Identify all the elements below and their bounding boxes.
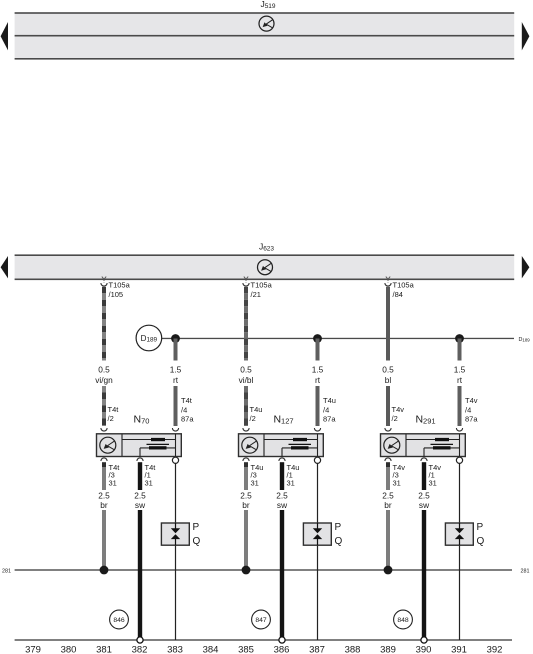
svg-text:31: 31: [393, 478, 401, 487]
svg-text:/4: /4: [465, 405, 471, 414]
svg-text:br: br: [100, 500, 108, 510]
svg-text:388: 388: [345, 645, 361, 654]
svg-text:/4: /4: [323, 405, 329, 414]
svg-text:rt: rt: [173, 375, 179, 385]
svg-text:/84: /84: [393, 290, 403, 299]
svg-text:0.5: 0.5: [382, 365, 394, 375]
svg-text:31: 31: [429, 478, 437, 487]
svg-text:391: 391: [451, 645, 467, 654]
svg-text:/105: /105: [109, 290, 124, 299]
svg-text:vi/gn: vi/gn: [95, 375, 113, 385]
svg-text:D189: D189: [519, 337, 531, 343]
svg-text:379: 379: [25, 645, 41, 654]
svg-text:T105a: T105a: [251, 281, 273, 290]
svg-text:392: 392: [487, 645, 503, 654]
svg-text:J623: J623: [259, 241, 274, 252]
svg-text:87a: 87a: [323, 415, 336, 424]
svg-text:383: 383: [167, 645, 183, 654]
svg-text:281: 281: [521, 568, 530, 574]
svg-text:87a: 87a: [465, 415, 478, 424]
svg-text:848: 848: [397, 617, 409, 624]
svg-text:31: 31: [145, 478, 153, 487]
svg-text:381: 381: [96, 645, 112, 654]
svg-text:P: P: [477, 522, 484, 533]
svg-text:T4u: T4u: [250, 405, 263, 414]
svg-text:0.5: 0.5: [240, 365, 252, 375]
svg-text:N70: N70: [134, 414, 150, 426]
svg-text:/4: /4: [181, 405, 187, 414]
svg-text:sw: sw: [277, 500, 288, 510]
svg-text:rt: rt: [315, 375, 321, 385]
svg-text:P: P: [193, 522, 200, 533]
svg-text:387: 387: [309, 645, 325, 654]
svg-text:Q: Q: [193, 536, 201, 547]
svg-text:380: 380: [61, 645, 77, 654]
svg-text:385: 385: [238, 645, 254, 654]
svg-text:1.5: 1.5: [312, 365, 324, 375]
svg-text:Q: Q: [477, 536, 485, 547]
svg-text:31: 31: [109, 478, 117, 487]
svg-text:0.5: 0.5: [98, 365, 110, 375]
svg-text:T4t: T4t: [108, 405, 120, 414]
svg-text:386: 386: [274, 645, 290, 654]
svg-text:31: 31: [251, 478, 259, 487]
svg-text:31: 31: [287, 478, 295, 487]
svg-text:/21: /21: [251, 290, 261, 299]
svg-text:bl: bl: [385, 375, 392, 385]
svg-text:/2: /2: [250, 414, 256, 423]
svg-text:T4v: T4v: [392, 405, 405, 414]
svg-text:T4v: T4v: [465, 396, 478, 405]
svg-text:N127: N127: [273, 414, 293, 426]
svg-text:382: 382: [132, 645, 148, 654]
svg-text:Q: Q: [335, 536, 343, 547]
svg-text:/2: /2: [392, 414, 398, 423]
svg-text:br: br: [384, 500, 392, 510]
svg-text:N291: N291: [415, 414, 435, 426]
svg-text:281: 281: [2, 568, 11, 574]
svg-text:sw: sw: [419, 500, 430, 510]
svg-text:390: 390: [416, 645, 432, 654]
svg-text:rt: rt: [457, 375, 463, 385]
svg-text:T105a: T105a: [393, 281, 415, 290]
svg-text:1.5: 1.5: [454, 365, 466, 375]
svg-text:384: 384: [203, 645, 219, 654]
svg-text:846: 846: [113, 617, 125, 624]
svg-text:sw: sw: [135, 500, 146, 510]
svg-text:vi/bl: vi/bl: [239, 375, 254, 385]
svg-text:br: br: [242, 500, 250, 510]
svg-text:T4u: T4u: [323, 396, 336, 405]
svg-text:J519: J519: [260, 0, 275, 10]
svg-text:1.5: 1.5: [170, 365, 182, 375]
svg-text:389: 389: [380, 645, 396, 654]
svg-text:847: 847: [255, 617, 267, 624]
svg-text:87a: 87a: [181, 415, 194, 424]
svg-text:/2: /2: [108, 414, 114, 423]
svg-text:T105a: T105a: [109, 281, 131, 290]
svg-text:T4t: T4t: [181, 396, 193, 405]
svg-text:P: P: [335, 522, 342, 533]
